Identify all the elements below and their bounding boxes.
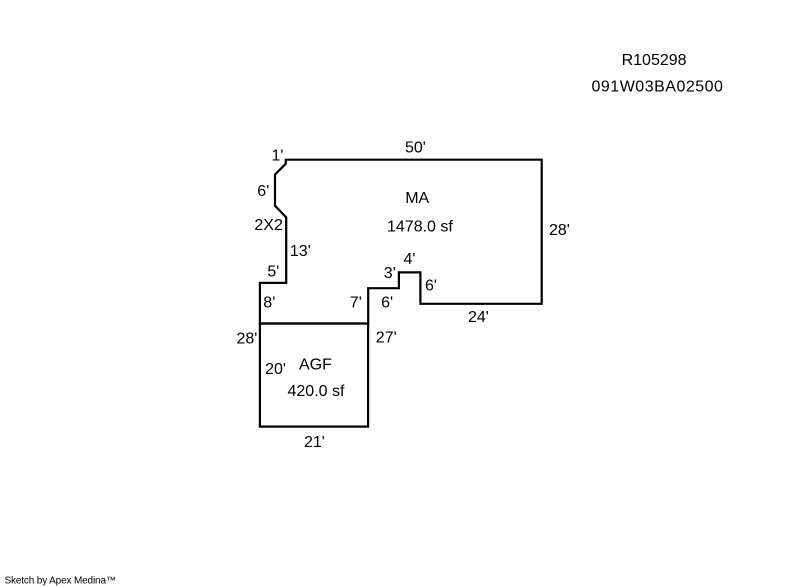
svg-text:20': 20' [265,361,286,378]
svg-text:AGF: AGF [299,357,332,374]
svg-text:28': 28' [549,222,570,239]
svg-text:091W03BA02500: 091W03BA02500 [592,79,724,96]
svg-text:6': 6' [257,183,269,200]
svg-text:R105298: R105298 [622,52,687,69]
svg-text:50': 50' [405,139,426,156]
svg-text:21': 21' [304,434,325,451]
svg-text:13': 13' [290,243,311,260]
svg-text:MA: MA [405,190,429,207]
svg-text:24': 24' [468,309,489,326]
svg-text:8': 8' [263,295,275,312]
svg-text:Sketch by Apex Medina™: Sketch by Apex Medina™ [5,576,116,587]
svg-text:1478.0 sf: 1478.0 sf [387,218,453,235]
svg-text:4': 4' [404,251,416,268]
svg-text:6': 6' [381,295,393,312]
svg-text:3': 3' [384,265,396,282]
svg-text:5': 5' [267,264,279,281]
svg-text:1': 1' [272,148,284,165]
svg-text:2X2: 2X2 [254,217,283,234]
AGF area outline (garage rectangle) [260,324,368,427]
svg-text:28': 28' [237,331,258,348]
svg-text:6': 6' [425,278,437,295]
svg-text:27': 27' [376,329,397,346]
svg-text:7': 7' [350,295,362,312]
svg-text:420.0 sf: 420.0 sf [288,383,345,400]
MA area outline (main building polygon) [260,160,542,324]
